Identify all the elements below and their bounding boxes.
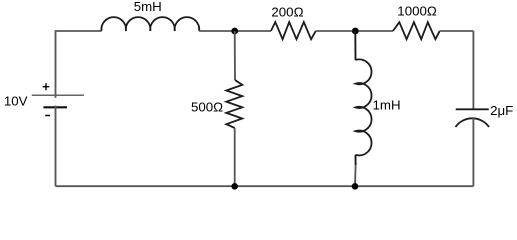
wire: right rail upper (capacitor top lead)	[472, 31, 474, 109]
svg-text:2μF: 2μF	[490, 103, 513, 118]
capacitor C1 2uF: top plate	[456, 108, 489, 110]
node C junction dot bottom-left	[231, 183, 238, 190]
wire: bottom rail	[56, 185, 474, 187]
node B junction dot top-right	[352, 28, 359, 35]
inductor L2 1mH (vertical)	[356, 59, 372, 155]
voltage source V1 10V: positive plate	[32, 94, 84, 96]
svg-text:10V: 10V	[4, 93, 28, 108]
svg-text:200Ω: 200Ω	[271, 5, 303, 20]
wire: top rail right segment	[440, 30, 474, 32]
svg-text:1000Ω: 1000Ω	[397, 4, 437, 19]
node A junction dot top-left	[231, 28, 238, 35]
wire: top rail left segment	[56, 30, 102, 32]
plus sign of source	[43, 83, 50, 90]
wire: left rail lower (source bottom lead)	[55, 106, 57, 187]
svg-text:500Ω: 500Ω	[191, 99, 223, 114]
resistor R2 1000ohm	[393, 22, 440, 39]
wire: 500ohm bottom lead	[234, 128, 236, 186]
wire: top rail, 200ohm to 1000ohm	[316, 30, 393, 32]
minus sign of source	[45, 115, 50, 117]
voltage source V1 10V: negative plate	[43, 106, 67, 108]
wire: 1mH bottom lead	[355, 155, 357, 165]
node D junction dot bottom-right	[352, 183, 359, 190]
resistor R3 500ohm (vertical)	[226, 80, 242, 128]
svg-text:1mH: 1mH	[373, 98, 401, 113]
wire: 1mH lead to bottom rail	[354, 165, 357, 186]
wire: 1mH top lead	[354, 31, 356, 60]
wire: 500ohm top lead	[234, 31, 236, 80]
wire: right rail lower (capacitor bottom lead)	[472, 118, 474, 186]
resistor R1 200ohm	[271, 22, 316, 39]
wire: top rail, inductor to 200ohm resistor	[199, 30, 271, 32]
capacitor C1 2uF: curved bottom plate	[456, 118, 490, 127]
wire: left rail upper (source top lead)	[55, 30, 57, 98]
svg-text:5mH: 5mH	[134, 0, 162, 14]
inductor L1 5mH	[101, 17, 199, 31]
